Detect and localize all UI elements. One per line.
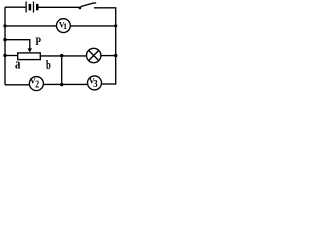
- svg-text:1: 1: [63, 22, 67, 31]
- svg-text:b: b: [46, 57, 51, 72]
- svg-text:P: P: [35, 34, 41, 48]
- svg-text:a: a: [15, 56, 21, 72]
- svg-text:2: 2: [35, 79, 39, 90]
- svg-text:3: 3: [93, 79, 97, 90]
